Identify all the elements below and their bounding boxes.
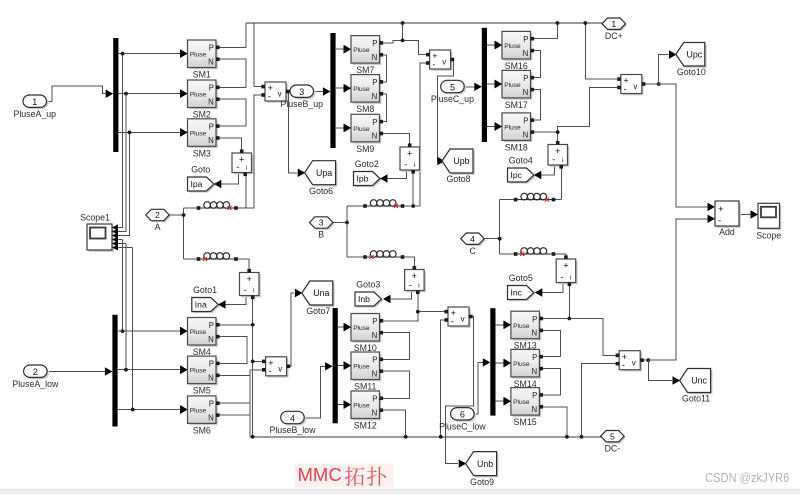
arrowhead into Ipc [534,171,542,179]
node junction Vdc out [657,82,661,86]
connection port 2 A [146,209,171,232]
svg-text:Upc: Upc [686,49,702,59]
wire SM15.N to DC- rail [543,407,567,437]
svg-text:-: - [718,216,721,227]
wire rail tap to Va_up meter [254,23,263,87]
arrowhead into Add plus [708,203,716,211]
wire demux to SM3 gate [118,131,180,133]
submodule block SM9 [344,114,383,154]
svg-text:Goto8: Goto8 [447,174,471,184]
bus/demux bar demux C up [482,28,487,142]
voltage measurement Va_low [262,357,290,378]
submodule block SM13 [504,311,543,351]
wire Add output to Scope [739,214,752,216]
svg-text:MMC: MMC [298,464,342,485]
wire current meter C_up signal to Ipc [540,167,555,176]
svg-text:SM7: SM7 [356,65,374,75]
svg-text:4: 4 [290,413,295,423]
svg-text:A: A [155,222,161,232]
wire demux to SM12 gate [338,404,344,406]
svg-text:-: - [236,162,239,172]
submodule block SM2 [181,80,220,120]
wire Vdc out to Add plus [659,84,708,207]
wire DC- rail [250,436,602,438]
arrowhead into Ipa [214,180,222,188]
connection port 3 B [309,217,334,240]
svg-text:P: P [372,118,377,127]
svg-text:P: P [372,39,377,48]
svg-text:P: P [209,400,214,409]
svg-text:P: P [209,122,214,131]
svg-text:Unb: Unb [477,459,493,469]
goto tag Goto5 (Inc) [508,273,536,301]
submodule block SM14 [504,349,543,389]
svg-text:Ina: Ina [195,300,207,310]
sum block Add [715,201,741,237]
arrowhead into SM16 [495,41,503,49]
inductor L C_up [514,193,556,201]
node junction DC- B2 [439,435,443,439]
svg-text:6: 6 [460,410,465,420]
wire SM2.N to SM3.P [220,99,247,126]
node junction scope tap2 [124,92,128,96]
svg-text:P: P [532,391,537,400]
svg-text:+: + [563,260,568,270]
wire demux to SM18 gate [487,126,495,128]
arrowhead into demux C low [483,358,491,366]
node junction SM13.P [568,317,572,321]
wire arm C upper node [500,199,562,201]
svg-text:N: N [372,92,378,101]
svg-text:Pluse: Pluse [513,361,530,368]
svg-text:Pluse: Pluse [504,125,521,132]
svg-text:Una: Una [313,288,329,298]
svg-text:Scope1: Scope1 [80,213,110,223]
svg-text:i: i [253,289,254,295]
svg-text:v: v [633,82,637,91]
node junction scope tap3 [128,131,132,135]
svg-text:Pluse: Pluse [513,399,530,406]
svg-text:Add: Add [719,227,735,237]
wire SM1.P to DC+ rail [220,23,247,47]
wire SM11.N to SM12.P [383,371,410,398]
wire B node vertical [346,206,348,257]
svg-text:-: - [560,272,563,282]
submodule block SM17 [495,70,534,110]
svg-text:v: v [278,364,282,373]
svg-text:+: + [412,271,417,281]
node node C junction [498,237,502,241]
svg-text:i: i [246,166,247,172]
svg-text:+: + [407,148,412,158]
arrowhead into SM13 [503,321,511,329]
svg-text:P: P [209,360,214,369]
arrowhead into SM2 [180,89,188,97]
submodule block SM6 [181,396,220,436]
arrowhead into SM17 [495,80,503,88]
svg-text:SM8: SM8 [356,104,374,114]
svg-text:N: N [208,374,214,383]
arrowhead into Upb [437,157,445,165]
svg-text:-: - [432,59,435,69]
arrowhead into Ina [218,300,226,308]
svg-text:Pluse: Pluse [513,323,530,330]
arrowhead into SM4 [180,327,188,335]
watermark CSDN [705,470,789,485]
svg-text:N: N [208,57,214,66]
svg-text:PluseA_low: PluseA_low [12,379,59,389]
svg-text:Pluse: Pluse [353,325,370,332]
svg-text:Upb: Upb [453,156,469,166]
node junction Vc_low out [646,358,650,362]
arrowhead into SM10 [344,323,352,331]
wire SM4.N to SM5.P [220,337,247,364]
svg-text:Goto5: Goto5 [509,273,533,283]
wire Va_low output to Una [288,293,294,366]
wire scope tap 5 [125,244,127,370]
bus/demux bar demux A up [113,38,118,152]
node node A junction [182,213,186,217]
bus/demux bar demux C low [490,308,495,415]
submodule block SM1 [181,40,220,80]
goto tag Goto7 (Una) [302,281,335,316]
inductor L A_up [197,202,238,210]
wire demux to SM15 gate [496,400,504,402]
current measurement Ia_low meter [240,269,261,299]
svg-text:1: 1 [32,97,37,107]
wire scope tap 6b [118,247,133,249]
svg-text:3: 3 [299,87,304,97]
wire current meter A_low out to SM4 chain [252,297,254,437]
wire demux to SM6 gate [118,409,181,411]
wire SM6.N to DC- rail [220,415,250,437]
svg-text:N: N [372,408,378,417]
wire PluseB_up to demux [315,91,324,93]
svg-text:Pluse: Pluse [504,82,521,89]
svg-text:+: + [718,204,724,215]
wire SM9.N to current meter B_up [383,134,410,146]
goto tag Goto4 (Ipc) [508,156,536,184]
bus/demux bar demux B up [330,33,335,148]
svg-text:P: P [372,78,377,87]
svg-text:N: N [372,331,378,340]
svg-text:i: i [562,158,563,164]
svg-text:P: P [372,356,377,365]
svg-text:-: - [409,280,412,290]
svg-text:i: i [414,163,415,169]
svg-text:Pluse: Pluse [190,329,207,336]
svg-text:N: N [532,367,538,376]
svg-text:4: 4 [470,234,475,244]
svg-text:+: + [247,274,252,284]
node junction scope tap1 [121,52,125,56]
wire demux to SM5 gate [118,369,181,371]
svg-text:N: N [208,413,214,422]
svg-text:P: P [209,84,214,93]
current measurement Ib_low meter [405,266,426,294]
wire scope tap 5b [118,243,126,245]
svg-text:Pluse: Pluse [353,126,370,133]
submodule block SM3 [181,119,220,159]
voltage measurement Va_up [261,82,289,103]
svg-text:2: 2 [155,210,160,220]
wire SM18.N to current meter C_up [534,132,558,143]
scope Scope1 [80,213,118,252]
svg-text:SM15: SM15 [514,417,537,427]
svg-text:Scope: Scope [756,230,781,240]
wire demux to SM7 gate [336,48,344,50]
arrowhead into Una [295,289,303,297]
svg-text:Pluse: Pluse [190,130,207,137]
svg-text:N: N [208,97,214,106]
wire C node vertical [499,200,501,254]
scope Scope [756,203,781,240]
wire A node link [169,214,184,216]
bus/demux bar demux A low [112,315,117,427]
wire PluseA_low to demux [49,371,105,373]
wire current meter C_low signal to Inc [541,283,563,293]
footer strip [0,489,800,495]
arrowhead into SM11 [344,361,352,369]
node junction DC- C2 [580,435,584,439]
wire Va_low plus tap [253,360,263,362]
arrowhead into demux A low [105,367,113,375]
port 1 PluseA_up [13,95,56,119]
arrowhead into SM7 [344,45,352,53]
wire SM5.N to SM6.P [220,375,250,403]
svg-text:Goto4: Goto4 [509,156,533,166]
inductor L A_low [197,253,238,261]
wire SM16.P to DC+ rail [534,23,557,39]
svg-text:Upa: Upa [316,168,332,178]
wire SM3.N to current meter A_up [220,138,242,150]
svg-text:-: - [622,360,625,370]
node junction rail B [401,21,405,25]
submodule block SM18 [495,113,534,152]
goto tag Goto8 (Upb) [442,149,475,184]
svg-text:PluseA_up: PluseA_up [13,109,56,119]
svg-text:Pluse: Pluse [353,86,370,93]
svg-text:+: + [239,154,244,164]
inductor L B_up [363,200,404,208]
arrowhead into Upa [298,169,306,177]
wire current meter A_up i-port to node [245,175,247,208]
svg-text:-: - [268,91,271,101]
wire current meter B_up i-port to node [412,172,414,207]
wire PluseC_up to demux [466,86,476,88]
svg-text:Inb: Inb [358,294,370,304]
wire SM13.N to SM14.P [543,330,561,356]
svg-text:C: C [469,246,476,256]
wire SM10.N to SM11.P [383,333,410,360]
svg-text:PluseB_up: PluseB_up [280,99,323,109]
svg-text:Pluse: Pluse [190,52,207,59]
svg-text:2: 2 [33,367,38,377]
node junction SM4.P [251,323,255,327]
svg-text:SM9: SM9 [356,144,374,154]
goto tag Goto3 (Inb) [355,280,383,308]
wire SM4.P tap [220,324,253,326]
current measurement Ic_low meter [556,255,577,286]
node junction scope tap4 [121,329,125,333]
svg-text:N: N [532,329,538,338]
wire arm A lower node [184,259,250,271]
arrowhead into Upc [669,50,677,58]
connection port 1 DC+ [602,18,627,41]
svg-text:Inc: Inc [511,288,523,298]
arrowhead into SM3 [180,128,188,136]
wire demux to SM14 gate [496,362,504,364]
svg-text:SM16: SM16 [505,61,528,71]
arrowhead into Add minus [708,215,716,223]
goto tag Goto2 (Ipb) [354,159,382,187]
wire Vb_low output to Unb [446,317,474,464]
wire demux to SM16 gate [487,44,495,46]
wire SM12.N to DC- rail [383,410,406,437]
wire B node link [332,222,347,224]
wire SM1.N to SM2.P [220,59,247,87]
svg-text:SM12: SM12 [354,421,377,431]
svg-text:N: N [523,49,529,58]
port 6 PluseC_low [439,408,486,432]
wire demux to SM10 gate [338,326,344,328]
current measurement Ic_up meter [548,141,569,169]
svg-text:P: P [209,321,214,330]
goto tag Goto10 (Upc) [676,43,707,78]
node node B junction [345,221,349,225]
svg-text:P: P [523,117,528,126]
goto tag Goto1 (Ina) [192,285,220,313]
wire Va_low minus to DC- rail [250,370,263,437]
svg-text:N: N [532,405,538,414]
svg-text:v: v [461,315,465,324]
svg-text:i: i [570,276,571,282]
svg-text:DC-: DC- [605,443,621,453]
svg-text:SM3: SM3 [193,148,211,158]
wire DC+ rail [246,22,602,24]
arrowhead into demux B low [325,362,333,370]
wire Vb_up plus tap [403,40,428,54]
svg-text:SM11: SM11 [354,382,376,392]
wire current meter B_up signal to Ipb [387,169,407,179]
svg-text:Goto: Goto [191,165,210,175]
wire demux to SM4 gate [118,330,181,332]
svg-text:B: B [318,230,324,240]
svg-text:v: v [278,90,282,99]
arrowhead into SM18 [495,122,503,130]
svg-text:P: P [532,353,537,362]
node junction rail C [556,21,560,25]
wire demux to SM8 gate [336,87,344,89]
voltage measurement Vc_low [616,351,644,372]
svg-text:3: 3 [319,218,324,228]
svg-text:Goto1: Goto1 [193,285,217,295]
svg-text:P: P [372,395,377,404]
svg-text:Goto10: Goto10 [677,67,706,77]
wire SM7.N to SM8.P [383,55,386,82]
wire arm B upper node [347,205,420,207]
node junction rail Vdc [583,21,587,25]
submodule block SM4 [181,318,220,358]
svg-text:SM17: SM17 [505,100,528,110]
arrowhead into SM9 [344,124,352,132]
title MMC topology (red) [295,464,394,488]
wire scope tap 1 [118,54,122,228]
wire Vb_up minus riser [420,63,428,206]
svg-text:SM2: SM2 [193,110,211,120]
arrowhead into SM6 [180,405,188,413]
svg-text:Ipa: Ipa [191,179,203,189]
voltage measurement Vb_low [444,307,472,328]
svg-text:+: + [555,146,560,156]
svg-text:Goto3: Goto3 [356,280,380,290]
arrowhead into Scope [751,210,759,218]
svg-text:5: 5 [450,82,455,92]
wire demux to SM11 gate [338,365,344,367]
wire SM17.N to SM18.P [534,90,540,121]
svg-text:Ipb: Ipb [357,174,369,184]
wire SM7.P riser [383,23,403,43]
current measurement Ib_up meter [400,143,421,173]
arrowhead into demux B up [323,87,331,95]
wire scope tap 2 [118,94,126,232]
svg-text:Unc: Unc [691,376,707,386]
inductor L B_low [363,251,404,259]
submodule block SM8 [344,75,383,115]
node junction DC- A [251,435,255,439]
wire SM14.N to SM15.P [543,369,561,395]
svg-text:P: P [372,317,377,326]
arrowhead into SM12 [344,400,352,408]
wire Vdc out to Upc [659,55,669,85]
svg-text:-: - [268,366,271,376]
node junction C chain top [556,130,560,134]
wire SM8.N to SM9.P [383,94,386,122]
wire scope tap 4 [122,240,124,332]
submodule block SM16 [495,31,534,71]
arrowhead into SM1 [180,49,188,57]
svg-text:Pluse: Pluse [190,368,207,375]
svg-text:P: P [532,315,537,324]
port 5 PluseC_up [431,80,474,104]
svg-text:DC+: DC+ [605,31,623,41]
node junction Vb_low plus [416,310,420,314]
wire Vb_low plus tap [418,311,445,313]
node junction scope tap5 [124,368,128,372]
connection port 4 C [461,233,486,256]
wire PluseB_low to demux [306,366,327,418]
current measurement Ia_up meter [232,149,253,176]
svg-text:v: v [442,58,446,67]
svg-text:5: 5 [610,431,615,441]
svg-text:-: - [244,285,247,295]
svg-text:Pluse: Pluse [504,43,521,50]
submodule block SM15 [504,388,543,428]
node junction DC- C1 [565,435,569,439]
svg-text:1: 1 [611,19,616,29]
wire arm B lower node [347,257,414,268]
svg-text:N: N [523,88,529,97]
goto tag Goto6 (Upa) [305,161,338,196]
arrowhead into demux C up [474,83,482,91]
wire Vc_low output link [643,359,649,361]
node junction Vb_up plus [401,39,405,43]
wire Vdc output link [644,83,659,85]
arrowhead into Inb [383,295,391,303]
wire current meter A_low signal to Ina [225,296,246,305]
svg-text:-: - [451,316,454,326]
svg-text:SM6: SM6 [193,425,211,435]
